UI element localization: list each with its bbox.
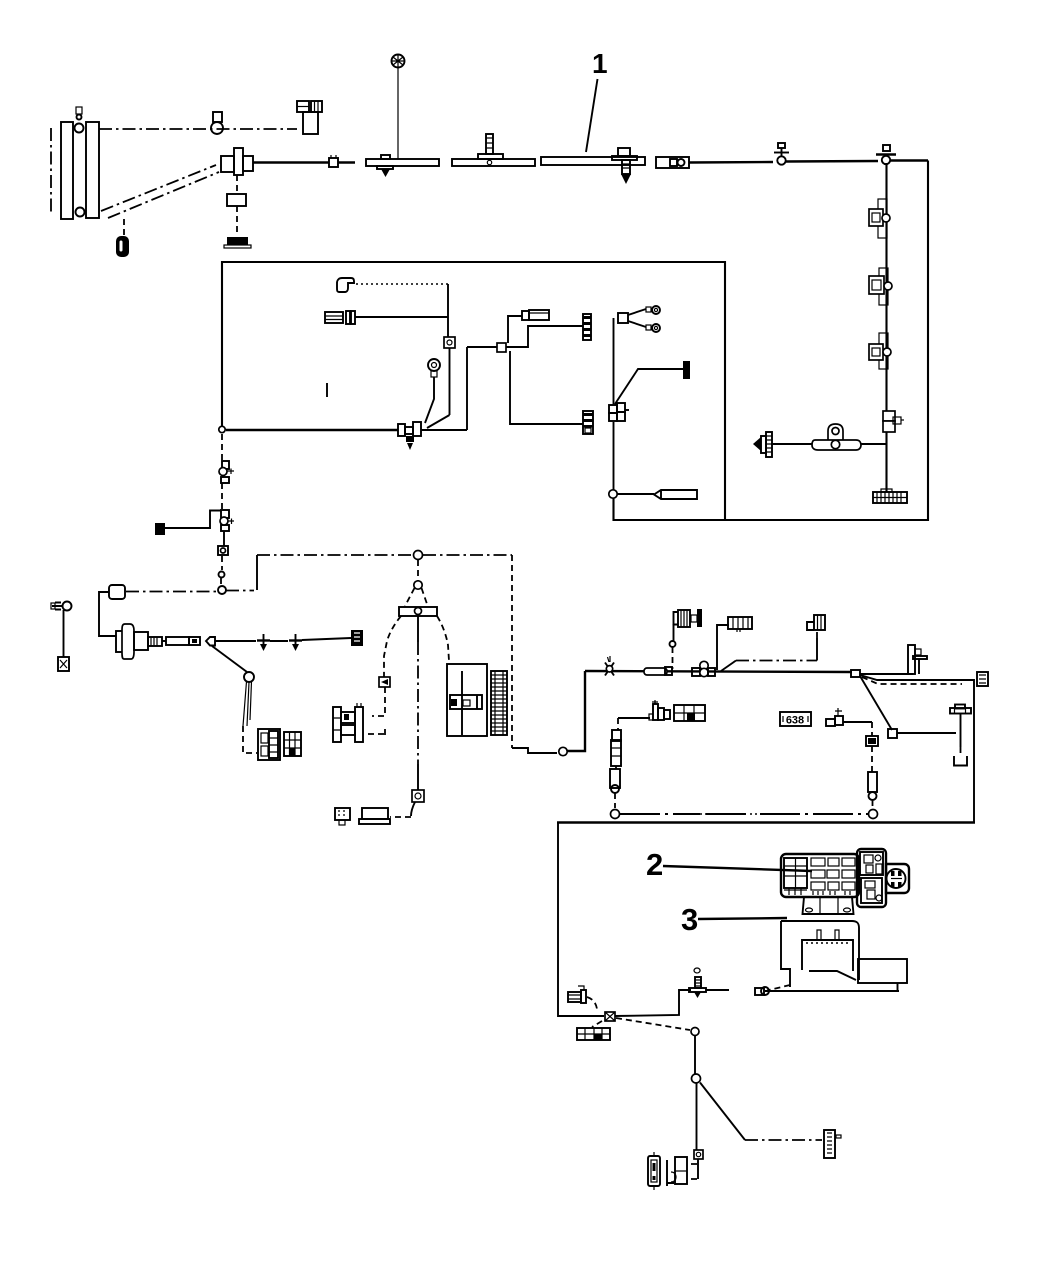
svg-text:3: 3 — [681, 902, 698, 937]
svg-text:1: 1 — [592, 48, 608, 79]
svg-text:2: 2 — [646, 847, 663, 882]
svg-text:638: 638 — [786, 715, 804, 727]
